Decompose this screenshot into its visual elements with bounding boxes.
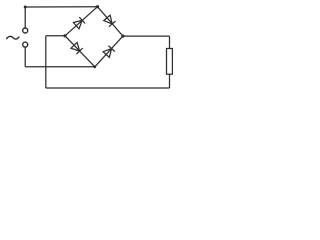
wire: top horizontal to bridge top	[25, 6, 97, 8]
diode D1 (left to top)	[73, 17, 85, 29]
junction node: bridge left	[63, 34, 66, 37]
junction dot: top-left wire corner	[24, 6, 27, 9]
junction node: bridge top	[96, 5, 99, 8]
wire: bridge branch bottom-right	[95, 36, 123, 67]
wire: bridge branch left-top	[65, 7, 98, 36]
wire: bottom ac horizontal to bridge bottom	[25, 66, 95, 68]
terminal (bottom)	[23, 42, 28, 47]
wire: bridge left corner to left bus	[46, 35, 65, 37]
wire: resistor top lead	[169, 36, 171, 48]
diode D4 (bottom to right)	[103, 46, 115, 58]
diode D3 (left to bottom)	[71, 42, 83, 54]
junction node: bridge bottom	[93, 65, 96, 68]
resistor R (load)	[167, 49, 173, 75]
diode D2 (top to right)	[104, 15, 116, 27]
wire: top terminal up	[24, 7, 26, 28]
wire: bottom bus up to resistor	[169, 74, 171, 88]
wire: bottom terminal down	[24, 47, 26, 67]
ac source V1 tilde	[6, 36, 19, 39]
wire: left bus vertical	[45, 36, 47, 88]
wire: bridge right corner to resistor top	[123, 35, 170, 37]
wire: bridge branch left-bottom	[65, 36, 95, 67]
junction node: bridge right	[121, 35, 124, 38]
wire: bottom bus horizontal	[46, 87, 170, 89]
wire: bridge branch top-right	[98, 7, 123, 36]
terminal (top)	[23, 28, 28, 33]
